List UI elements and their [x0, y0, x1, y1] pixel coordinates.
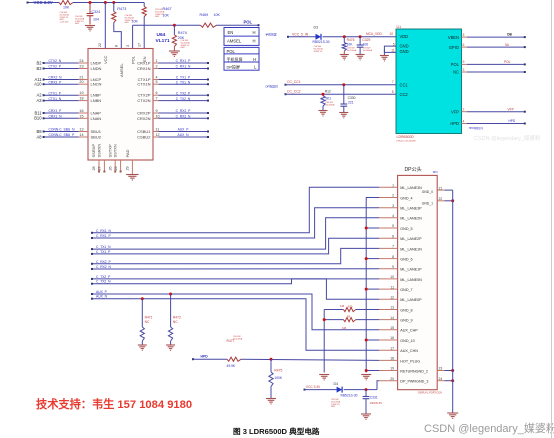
- svg-text:H: H: [253, 39, 256, 44]
- svg-text:B2: B2: [36, 60, 42, 65]
- DP pin 23: [437, 370, 444, 372]
- svg-text:CTX2N: CTX2N: [137, 98, 150, 103]
- wire net C_RX2_N to DP pin 9: [92, 268, 379, 270]
- svg-text:HOT_PLUG: HOT_PLUG: [400, 359, 420, 363]
- ground for R474: [173, 47, 175, 51]
- svg-text:CTX2_N: CTX2_N: [49, 59, 62, 63]
- DP pin 18 HOT_PLUG: [379, 359, 398, 361]
- wire GND bus to DP pin 5: [366, 227, 379, 229]
- svg-text:CRX2_N: CRX2_N: [49, 76, 63, 80]
- pin 24 LNDP wire (net CTX2_N): [44, 62, 79, 64]
- svg-text:28: 28: [92, 166, 96, 170]
- svg-text:5: 5: [393, 42, 395, 46]
- svg-text:CRX2N: CRX2N: [137, 116, 151, 121]
- svg-text:106: 106: [363, 43, 369, 47]
- pin 18 LNBN wire (net CTX1_N): [44, 100, 79, 102]
- svg-text:+/-5% 50V: +/-5% 50V: [60, 22, 70, 24]
- svg-text:13: 13: [79, 128, 83, 132]
- svg-text:CSDN @legendary_媒婆粉: CSDN @legendary_媒婆粉: [474, 134, 541, 142]
- svg-text:R10: R10: [348, 306, 353, 309]
- svg-text:MCU_VDD: MCU_VDD: [366, 32, 382, 36]
- svg-text:AUX_P: AUX_P: [178, 128, 190, 132]
- svg-text:24: 24: [439, 377, 443, 381]
- svg-text:HPD: HPD: [450, 121, 459, 126]
- svg-text:5: 5: [463, 33, 465, 37]
- svg-text:DFN-16_CSC16C8W: DFN-16_CSC16C8W: [397, 141, 416, 143]
- svg-text:NC: NC: [173, 320, 178, 324]
- svg-text:LNBN: LNBN: [91, 98, 102, 103]
- svg-text:C_RX2_N: C_RX2_N: [176, 115, 191, 119]
- wire VCC to D4: [305, 389, 337, 391]
- wire DP shield ground vertical: [452, 190, 454, 412]
- DP pin 17 AUX_CHN: [379, 349, 398, 351]
- svg-text:图 3 LDR6500D 典型电路: 图 3 LDR6500D 典型电路: [233, 426, 320, 436]
- svg-text:D3: D3: [314, 26, 319, 30]
- svg-text:AMSEL: AMSEL: [119, 63, 124, 77]
- svg-text:VCC_5_IN: VCC_5_IN: [292, 33, 309, 37]
- svg-text:GND_10: GND_10: [400, 339, 414, 343]
- svg-text:17: 17: [390, 346, 394, 350]
- svg-text:27: 27: [98, 166, 102, 170]
- capacitor C329: [359, 37, 361, 45]
- resistor R476: [343, 37, 345, 43]
- resistor R474: [173, 25, 175, 35]
- svg-text:49.9K: 49.9K: [227, 364, 236, 368]
- svg-text:GND_0: GND_0: [422, 190, 433, 194]
- svg-text:POL: POL: [504, 60, 511, 64]
- IC U1 LDR6500D body: [396, 29, 462, 134]
- svg-text:Vol 200mA: Vol 200mA: [347, 49, 357, 52]
- pin 5 CTX1N wire (net C_TX1_N): [153, 83, 158, 85]
- svg-text:CTX2_P: CTX2_P: [49, 65, 62, 69]
- U1 right pin 6 wire GPIO: [462, 46, 468, 48]
- svg-text:POL: POL: [130, 55, 135, 64]
- DP pin 22 GND_1: [437, 200, 444, 202]
- DP pin 7 ML_LANE1N: [379, 247, 398, 249]
- pin 4 CTX1P wire (net C_TX1_P): [153, 79, 158, 81]
- svg-text:AMSEL: AMSEL: [227, 39, 242, 44]
- svg-text:10: 10: [390, 275, 394, 279]
- pin 10 CRX2N wire (net C_RX2_N): [153, 117, 158, 119]
- svg-text:11: 11: [156, 128, 160, 132]
- svg-text:AUX_CHN: AUX_CHN: [400, 349, 418, 353]
- svg-text:7: 7: [392, 245, 394, 249]
- svg-text:20: 20: [79, 80, 83, 84]
- ground for 1M resistors: [319, 375, 329, 380]
- ground for PAD: [126, 175, 138, 180]
- svg-text:R476: R476: [347, 38, 355, 42]
- svg-text:1/16W 1%: 1/16W 1%: [314, 51, 323, 53]
- svg-text:C_RX2_P: C_RX2_P: [176, 109, 191, 113]
- wire VCC pin22: [104, 3, 106, 49]
- svg-text:C_TX1_N: C_TX1_N: [96, 245, 111, 249]
- pin 1 CRX1P wire (net C_RX1_P): [153, 62, 158, 64]
- svg-text:25: 25: [114, 166, 118, 170]
- svg-text:2: 2: [156, 65, 158, 69]
- svg-text:LNAN: LNAN: [91, 116, 102, 121]
- DP pin 8 GND_6: [379, 258, 398, 260]
- ground for GND bus: [361, 375, 371, 380]
- svg-text:4: 4: [463, 119, 465, 123]
- svg-text:R472: R472: [173, 316, 181, 320]
- pin 13 SBU1 wire (net CONN-C_SBU_N): [44, 131, 79, 133]
- svg-text:CTX1_N: CTX1_N: [49, 97, 62, 101]
- resistor series 10K on rail: [59, 0, 73, 4]
- svg-text:15: 15: [390, 326, 394, 330]
- DP pin 12 ML_LANE0P: [379, 298, 398, 300]
- svg-text:ML_LANE1P: ML_LANE1P: [400, 268, 422, 272]
- svg-text:9: 9: [463, 60, 465, 64]
- svg-text:VCC 3.3V: VCC 3.3V: [306, 385, 321, 389]
- pin 27 SSRXN stub: [103, 160, 105, 172]
- svg-text:AUX_N: AUX_N: [178, 133, 190, 137]
- capacitor C324: [89, 3, 91, 14]
- svg-text:5: 5: [392, 224, 394, 228]
- wire HPD left: [193, 358, 227, 360]
- svg-text:CRX1_P: CRX1_P: [49, 109, 63, 113]
- svg-text:B8: B8: [36, 129, 42, 134]
- svg-text:AUX_N: AUX_N: [96, 295, 108, 299]
- svg-text:U64: U64: [157, 32, 166, 38]
- node junction C330 on CC1: [342, 83, 345, 86]
- svg-text:C331: C331: [370, 395, 378, 399]
- wire GND bus to DP pin 19: [366, 370, 379, 372]
- svg-text:GPIO: GPIO: [449, 45, 459, 50]
- svg-text:3: 3: [126, 45, 130, 47]
- pin 15 LNAN wire (net CRX1_N): [44, 117, 79, 119]
- U1 right pin 2 wire VFP: [462, 111, 468, 113]
- svg-text:PAD: PAD: [125, 149, 130, 157]
- node rail junction A: [89, 1, 92, 4]
- svg-text:C_TX2_N: C_TX2_N: [96, 280, 111, 284]
- wire net C_RX1_N to DP pin 1: [92, 187, 379, 233]
- wire D4 to DP pin 20: [344, 389, 377, 391]
- svg-text:ML_LANE2N: ML_LANE2N: [400, 217, 422, 221]
- pin 21 LNCP wire (net CRX2_N): [44, 79, 79, 81]
- svg-text:C329: C329: [362, 38, 370, 42]
- svg-text:GND_6: GND_6: [400, 258, 412, 262]
- svg-text:11: 11: [390, 285, 394, 289]
- svg-text:ML_LANE0N: ML_LANE0N: [400, 278, 422, 282]
- svg-text:CTX1_P: CTX1_P: [49, 91, 62, 95]
- svg-text:221: 221: [348, 101, 354, 105]
- svg-text:HPD: HPD: [201, 355, 209, 359]
- ground for R472: [170, 341, 172, 345]
- svg-text:100K: 100K: [274, 376, 283, 380]
- svg-text:CRX2P: CRX2P: [137, 111, 151, 116]
- svg-text:CRX1N: CRX1N: [137, 66, 151, 71]
- wire HPD to DP pin 18: [241, 359, 379, 360]
- svg-text:Vol 200mA: Vol 200mA: [363, 49, 373, 52]
- svg-text:19: 19: [79, 91, 83, 95]
- svg-text:HPD预留信号: HPD预留信号: [469, 126, 484, 130]
- DP pin 21 GND_0: [437, 189, 444, 191]
- svg-text:EN: EN: [142, 56, 147, 62]
- pin 25 SSTXN stub: [120, 160, 122, 172]
- node junction R471 on AUX_N: [141, 297, 144, 300]
- svg-text:POL: POL: [244, 19, 253, 24]
- svg-text:Vol 200mA: Vol 200mA: [325, 103, 335, 106]
- svg-text:16: 16: [79, 109, 83, 113]
- U1 right pin 3 wire NC: [462, 71, 468, 73]
- DP pin 14 GND_9: [379, 319, 398, 321]
- svg-text:VDD: VDD: [400, 34, 409, 39]
- svg-text:H: H: [253, 57, 256, 62]
- wire 1M ground vertical: [323, 310, 325, 373]
- svg-text:1: 1: [156, 59, 158, 63]
- legend table ENAMSEL box: [224, 28, 259, 46]
- svg-text:R469: R469: [200, 13, 209, 17]
- svg-text:8: 8: [115, 45, 119, 47]
- svg-text:RB521S-30: RB521S-30: [340, 393, 357, 397]
- svg-text:CONN-C_SBU_P: CONN-C_SBU_P: [49, 133, 76, 137]
- svg-text:17: 17: [138, 43, 142, 47]
- DP pin 20 DP_PWRGND_3: [379, 380, 398, 382]
- svg-text:0402: 0402: [75, 23, 79, 25]
- svg-text:CSBU1: CSBU1: [137, 129, 151, 134]
- svg-text:VFP: VFP: [508, 108, 514, 112]
- svg-text:R467: R467: [163, 7, 172, 11]
- svg-text:21: 21: [79, 76, 83, 80]
- ground for C330: [343, 106, 345, 112]
- svg-text:SSTXN: SSTXN: [113, 144, 118, 157]
- svg-text:GND_5: GND_5: [400, 227, 412, 231]
- wire rail left segment: [28, 2, 60, 4]
- svg-text:C_RX2_P: C_RX2_P: [96, 260, 111, 264]
- svg-text:手机投屏: 手机投屏: [227, 56, 243, 62]
- svg-text:Vol 200mA: Vol 200mA: [233, 337, 243, 340]
- capacitor C331: [365, 390, 367, 397]
- wire net C_RX2_P to DP pin 7: [92, 248, 379, 263]
- svg-text:A10: A10: [34, 82, 42, 87]
- DP pin 24: [437, 380, 444, 382]
- svg-text:手机投屏: 手机投屏: [266, 33, 277, 37]
- DP pin 15 AUX_CHP: [379, 329, 398, 331]
- svg-text:U1: U1: [397, 25, 402, 29]
- IC U64 VL171 body: [88, 49, 153, 161]
- svg-text:DP公头: DP公头: [405, 166, 422, 173]
- svg-text:C_RX1_P: C_RX1_P: [96, 234, 111, 238]
- pin 6 CTX2P wire (net C_TX2_P): [153, 94, 158, 96]
- wire D3 to VDD pin10: [323, 36, 397, 38]
- svg-text:5: 5: [156, 80, 158, 84]
- node junction R474 top: [173, 24, 176, 27]
- svg-text:D4: D4: [334, 382, 339, 386]
- svg-text:24: 24: [79, 59, 83, 63]
- svg-text:21: 21: [439, 186, 443, 190]
- DP pin 2 GND_4: [379, 197, 398, 199]
- svg-text:CTX1N: CTX1N: [137, 82, 150, 87]
- svg-text:CC_CC1: CC_CC1: [287, 80, 301, 84]
- svg-text:GND_7: GND_7: [400, 288, 412, 292]
- svg-text:23: 23: [439, 367, 443, 371]
- svg-text:CSDN @legendary_媒婆粉: CSDN @legendary_媒婆粉: [424, 422, 554, 435]
- svg-text:6: 6: [463, 43, 465, 47]
- svg-text:15: 15: [79, 114, 83, 118]
- U1 right pin 5 wire VBEN: [462, 36, 468, 38]
- svg-text:C_TX2_P: C_TX2_P: [96, 275, 111, 279]
- svg-text:H: H: [253, 30, 256, 35]
- svg-text:LDR6500D: LDR6500D: [397, 135, 415, 139]
- wire VCC_5_IN to D3: [288, 36, 316, 38]
- resistor R475 100K: [270, 359, 272, 372]
- svg-text:10K: 10K: [214, 13, 221, 17]
- svg-text:NC: NC: [453, 70, 459, 75]
- svg-text:2: 2: [463, 108, 465, 112]
- svg-text:POL: POL: [451, 62, 460, 67]
- svg-text:14: 14: [390, 316, 394, 320]
- svg-text:R12: R12: [325, 90, 331, 94]
- pin 9 CRX2P wire (net C_RX2_P): [153, 112, 158, 114]
- svg-text:LNDP: LNDP: [91, 61, 102, 66]
- svg-text:AUX_CHP: AUX_CHP: [400, 329, 418, 333]
- svg-text:B10: B10: [34, 116, 42, 121]
- legend table POL box: [224, 47, 259, 70]
- svg-text:VCC: VCC: [103, 55, 108, 64]
- svg-text:0402: 0402: [155, 16, 159, 18]
- svg-text:1M: 1M: [340, 304, 345, 308]
- pin 11 CSBU1 wire (net AUX_P): [153, 131, 158, 133]
- wire net C_TX2_N to DP pin 10: [92, 279, 379, 284]
- node junction C329: [359, 35, 362, 38]
- pin 23 LNDN wire (net CTX2_P): [44, 68, 79, 70]
- svg-text:10K: 10K: [347, 43, 354, 47]
- svg-text:POL: POL: [227, 49, 236, 54]
- svg-text:DISPLAY_PORT-CON: DISPLAY_PORT-CON: [418, 392, 442, 395]
- pin 7 CTX2N wire (net C_TX2_N): [153, 100, 158, 102]
- svg-text:16: 16: [390, 336, 394, 340]
- svg-text:R474: R474: [178, 31, 187, 35]
- svg-text:226/6.3V: 226/6.3V: [370, 401, 383, 405]
- DP pin 4 ML_LANE2N: [379, 217, 398, 219]
- node junction R12 on CC2: [322, 93, 325, 96]
- U1 right pin 4 wire HPD: [462, 123, 468, 125]
- DP pin 10 ML_LANE0N: [379, 278, 398, 280]
- svg-text:C330: C330: [348, 96, 356, 100]
- DP connector body: [398, 175, 438, 389]
- svg-text:C_RX1_N: C_RX1_N: [96, 229, 111, 233]
- svg-text:26: 26: [108, 166, 112, 170]
- svg-text:VBEN: VBEN: [448, 35, 459, 40]
- wire POL net horizontal: [133, 24, 201, 26]
- ground for C331: [365, 399, 367, 414]
- pin 12 CSBU2 wire (net AUX_N): [153, 136, 158, 138]
- svg-text:SBU2: SBU2: [91, 135, 102, 140]
- svg-text:10K: 10K: [63, 6, 70, 10]
- svg-text:ML_LANE1N: ML_LANE1N: [400, 247, 422, 251]
- wire EN pin17 from R467: [143, 17, 145, 49]
- DP pin 5 GND_5: [379, 227, 398, 229]
- svg-text:CC_CC2: CC_CC2: [287, 89, 301, 93]
- svg-text:C_TX2_P: C_TX2_P: [176, 91, 191, 95]
- svg-text:CSBU2: CSBU2: [137, 135, 151, 140]
- svg-text:2: 2: [392, 194, 394, 198]
- resistor R471 NC: [141, 299, 143, 327]
- svg-text:CRX1_N: CRX1_N: [49, 115, 63, 119]
- pin 19 LNBP wire (net CTX1_P): [44, 94, 79, 96]
- svg-text:4: 4: [156, 76, 158, 80]
- svg-text:8: 8: [392, 90, 394, 94]
- svg-text:20: 20: [390, 377, 394, 381]
- resistor R10 1M: [356, 309, 379, 311]
- ground for DP shield: [447, 413, 458, 418]
- svg-text:10: 10: [389, 32, 393, 36]
- svg-text:VL171: VL171: [156, 38, 170, 44]
- svg-text:CONN-C_SBU_N: CONN-C_SBU_N: [49, 128, 76, 132]
- ground for C329: [359, 47, 361, 54]
- svg-text:SBU1: SBU1: [91, 129, 102, 134]
- wire CC2: [286, 93, 397, 95]
- node rail junction C: [112, 1, 115, 4]
- svg-text:R473: R473: [117, 7, 126, 11]
- svg-text:SSRXP: SSRXP: [91, 144, 96, 158]
- svg-text:29: 29: [126, 166, 130, 170]
- ground for R12: [322, 106, 324, 110]
- svg-text:ML_LANE2P: ML_LANE2P: [400, 237, 422, 241]
- wire net C_RX1_P to DP pin 3: [92, 208, 379, 238]
- svg-text:0402: 0402: [125, 22, 129, 24]
- svg-text:R475: R475: [274, 369, 282, 373]
- wire GND bus to DP pin 16: [366, 339, 379, 341]
- svg-text:0402: 0402: [331, 406, 335, 408]
- wire GND bus to DP pin 11: [366, 288, 379, 290]
- svg-text:A3: A3: [36, 98, 42, 103]
- svg-text:AUX_P: AUX_P: [96, 290, 108, 294]
- resistor R9 1M: [356, 319, 379, 321]
- DP pin 16 GND_10: [379, 339, 398, 341]
- wire net C_TX1_N to DP pin 4: [92, 218, 379, 249]
- resistor R469: [201, 23, 217, 27]
- svg-text:SSRXN: SSRXN: [97, 144, 102, 158]
- resistor R467: [143, 3, 145, 7]
- svg-text:19: 19: [390, 367, 394, 371]
- DP pin 9 ML_LANE1P: [379, 268, 398, 270]
- svg-text:6: 6: [392, 234, 394, 238]
- svg-text:7: 7: [392, 80, 394, 84]
- svg-text:C_TX2_N: C_TX2_N: [176, 97, 191, 101]
- svg-text:C_TX1_P: C_TX1_P: [176, 76, 191, 80]
- svg-text:18: 18: [390, 357, 394, 361]
- svg-text:1M: 1M: [342, 326, 347, 330]
- svg-text:SSTXP: SSTXP: [107, 144, 112, 157]
- svg-text:EN: EN: [228, 30, 234, 35]
- capacitor C330: [343, 85, 345, 104]
- svg-text:GND_8: GND_8: [400, 308, 412, 312]
- resistor R473: [113, 3, 115, 12]
- svg-text:1: 1: [392, 184, 394, 188]
- DP pin 19 RETURNGND_2: [379, 370, 398, 372]
- svg-text:C_RX1_P: C_RX1_P: [176, 59, 191, 63]
- svg-text:LNCN: LNCN: [91, 82, 102, 87]
- wire GND bus vertical: [366, 198, 379, 373]
- pin 14 SBU2 wire (net CONN-C_SBU_P): [44, 136, 79, 138]
- svg-text:A2: A2: [36, 93, 42, 98]
- svg-text:CRX2_P: CRX2_P: [49, 80, 63, 84]
- pin 28 SSRXP stub: [98, 160, 100, 172]
- svg-text:ML_LANE3P: ML_LANE3P: [400, 207, 422, 211]
- svg-text:6: 6: [156, 91, 158, 95]
- svg-text:9: 9: [392, 265, 394, 269]
- wire rail right segment: [73, 2, 144, 4]
- svg-text:GND_1: GND_1: [422, 201, 433, 205]
- svg-text:CC2: CC2: [400, 92, 409, 97]
- DP pin 6 ML_LANE2P: [379, 237, 398, 239]
- svg-text:RETURNGND_2: RETURNGND_2: [400, 369, 428, 373]
- svg-text:22: 22: [439, 197, 443, 201]
- svg-text:7: 7: [156, 97, 158, 101]
- svg-text:11: 11: [391, 49, 395, 53]
- node junction C331: [365, 388, 368, 391]
